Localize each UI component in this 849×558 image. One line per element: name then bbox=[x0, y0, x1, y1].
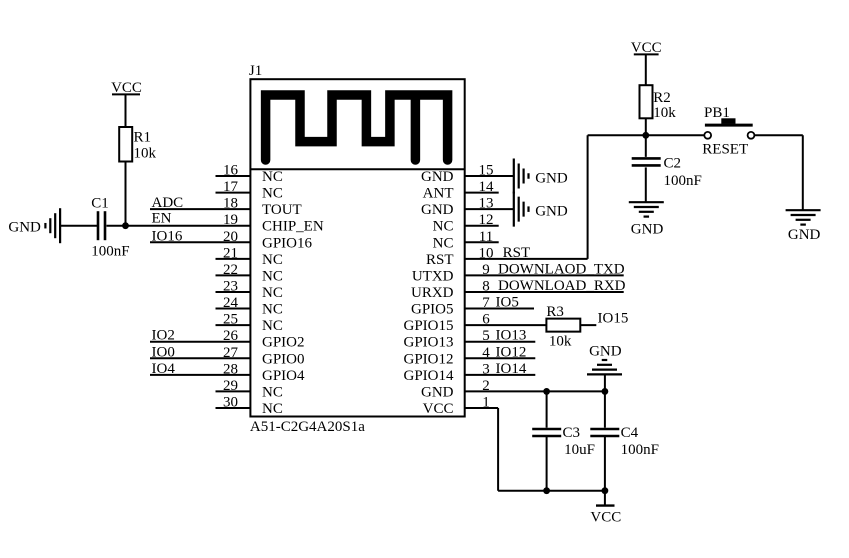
svg-text:GPIO15: GPIO15 bbox=[403, 318, 453, 334]
pin 9 (UTXD) right stub + number bbox=[465, 262, 624, 278]
capacitor C4 bbox=[590, 391, 619, 490]
svg-text:NC: NC bbox=[262, 285, 283, 301]
svg-text:15: 15 bbox=[479, 163, 494, 179]
svg-text:NC: NC bbox=[433, 235, 454, 251]
pin 24 (NC) left stub + number bbox=[216, 295, 251, 311]
svg-text:23: 23 bbox=[223, 278, 238, 294]
svg-text:NC: NC bbox=[262, 268, 283, 284]
svg-text:RESET: RESET bbox=[702, 142, 748, 158]
svg-text:30: 30 bbox=[223, 394, 238, 410]
pin 18 (TOUT) left stub + number bbox=[150, 196, 250, 212]
pin 5 (GPIO13) right stub + number bbox=[465, 328, 536, 344]
svg-text:21: 21 bbox=[223, 245, 238, 261]
ground symbol above pin 2 wire bbox=[587, 344, 622, 392]
svg-text:GND: GND bbox=[631, 222, 664, 238]
svg-text:10uF: 10uF bbox=[564, 442, 595, 458]
svg-text:GPIO12: GPIO12 bbox=[403, 351, 453, 367]
svg-text:GPIO4: GPIO4 bbox=[262, 368, 305, 384]
svg-text:NC: NC bbox=[262, 252, 283, 268]
svg-text:1: 1 bbox=[482, 394, 490, 410]
svg-text:13: 13 bbox=[479, 196, 494, 212]
svg-text:DOWNLAOD_TXD: DOWNLAOD_TXD bbox=[498, 261, 625, 277]
pin 20 (GPIO16) left stub + number bbox=[150, 229, 250, 245]
junction dot EN node bbox=[122, 222, 129, 229]
pin 14 (ANT) right stub + number bbox=[465, 179, 499, 195]
junction dot C4 bottom bbox=[602, 487, 609, 494]
svg-text:12: 12 bbox=[479, 212, 494, 228]
ground symbol right of PB1 bbox=[786, 210, 821, 243]
pin 21 (NC) left stub + number bbox=[216, 245, 251, 261]
svg-text:IO5: IO5 bbox=[496, 295, 519, 311]
svg-text:17: 17 bbox=[223, 179, 239, 195]
svg-text:GND: GND bbox=[8, 220, 41, 236]
svg-text:22: 22 bbox=[223, 262, 238, 278]
pin 8 (URXD) right stub + number bbox=[465, 278, 624, 294]
svg-text:GND: GND bbox=[589, 344, 622, 360]
svg-text:C1: C1 bbox=[91, 196, 109, 212]
capacitor C3 bbox=[532, 391, 561, 490]
svg-text:3: 3 bbox=[482, 361, 490, 377]
ground symbol at pin 13 bbox=[514, 192, 568, 227]
svg-text:4: 4 bbox=[482, 345, 490, 361]
svg-text:URXD: URXD bbox=[411, 285, 454, 301]
svg-text:IO0: IO0 bbox=[152, 344, 175, 360]
pin 17 (NC) left stub + number bbox=[216, 179, 251, 195]
power symbol VCC (top right) bbox=[631, 40, 662, 85]
svg-text:24: 24 bbox=[223, 295, 239, 311]
svg-text:ANT: ANT bbox=[423, 186, 454, 202]
svg-text:IO14: IO14 bbox=[496, 361, 527, 377]
svg-text:GND: GND bbox=[421, 384, 454, 400]
wire C2 to ground bbox=[645, 167, 647, 202]
svg-text:100nF: 100nF bbox=[664, 173, 702, 189]
svg-text:GPIO16: GPIO16 bbox=[262, 235, 313, 251]
svg-text:UTXD: UTXD bbox=[412, 268, 454, 284]
pin 27 (GPIO0) left stub + number bbox=[150, 345, 250, 361]
svg-text:20: 20 bbox=[223, 229, 238, 245]
svg-text:28: 28 bbox=[223, 361, 238, 377]
svg-text:TOUT: TOUT bbox=[262, 202, 302, 218]
svg-text:10k: 10k bbox=[134, 146, 157, 162]
pin 12 (NC) right stub + number bbox=[465, 212, 499, 228]
svg-text:IO15: IO15 bbox=[598, 311, 629, 327]
svg-text:R3: R3 bbox=[546, 304, 564, 320]
svg-text:VCC: VCC bbox=[590, 510, 621, 526]
pin 28 (GPIO4) left stub + number bbox=[150, 361, 250, 377]
svg-text:GND: GND bbox=[535, 170, 568, 186]
ground symbol (left, at C1) bbox=[8, 208, 60, 243]
svg-text:J1: J1 bbox=[249, 63, 262, 79]
pin 22 (NC) left stub + number bbox=[216, 262, 251, 278]
svg-text:NC: NC bbox=[433, 219, 454, 235]
svg-text:GND: GND bbox=[788, 227, 821, 243]
svg-text:CHIP_EN: CHIP_EN bbox=[262, 219, 324, 235]
svg-text:6: 6 bbox=[482, 312, 490, 328]
wire GND to C1 bbox=[61, 225, 98, 227]
svg-text:27: 27 bbox=[223, 345, 239, 361]
svg-text:5: 5 bbox=[482, 328, 490, 344]
svg-text:29: 29 bbox=[223, 378, 238, 394]
pin 30 (NC) left stub + number bbox=[216, 394, 251, 410]
pin 25 (NC) left stub + number bbox=[216, 312, 251, 328]
svg-text:C3: C3 bbox=[563, 425, 581, 441]
junction dot C3 bottom bbox=[543, 487, 550, 494]
pin 15 (GND) right stub + number bbox=[465, 163, 514, 179]
svg-text:R2: R2 bbox=[653, 90, 671, 106]
svg-text:C4: C4 bbox=[621, 425, 639, 441]
svg-text:10k: 10k bbox=[549, 334, 572, 350]
junction dot pin2/C4/gnd bbox=[602, 388, 609, 395]
svg-text:GPIO2: GPIO2 bbox=[262, 335, 305, 351]
wire C1 to pin 19 (EN net) bbox=[107, 225, 251, 227]
svg-text:A51-C2G4A20S1a: A51-C2G4A20S1a bbox=[250, 419, 365, 435]
svg-text:NC: NC bbox=[262, 384, 283, 400]
ground symbol below C2 bbox=[629, 202, 664, 237]
pin 16 (NC) left stub + number bbox=[216, 163, 251, 179]
antenna meander inside J1 bbox=[266, 95, 448, 160]
pin 19 (CHIP_EN) left stub + number bbox=[223, 212, 238, 228]
svg-text:GPIO13: GPIO13 bbox=[403, 335, 453, 351]
pin 4 (GPIO12) right stub + number bbox=[465, 345, 536, 361]
pin 7 (GPIO5) right stub + number bbox=[465, 295, 534, 311]
svg-text:ADC: ADC bbox=[152, 195, 184, 211]
resistor R3 bbox=[546, 319, 580, 332]
wire PB1 to right ground bbox=[754, 134, 802, 136]
wire pin1 down bbox=[497, 408, 499, 491]
svg-text:RST: RST bbox=[503, 245, 531, 261]
wire R2 to RST node bbox=[645, 118, 647, 157]
svg-text:R1: R1 bbox=[134, 130, 152, 146]
svg-text:DOWNLOAD_RXD: DOWNLOAD_RXD bbox=[498, 278, 626, 294]
svg-text:100nF: 100nF bbox=[91, 244, 129, 260]
resistor R1 bbox=[119, 127, 132, 162]
ground symbol at pin 15 bbox=[514, 159, 568, 194]
wire RST vertical to pin 10 bbox=[587, 135, 589, 259]
svg-text:NC: NC bbox=[262, 318, 283, 334]
power symbol VCC (bottom) bbox=[590, 491, 621, 526]
svg-text:8: 8 bbox=[482, 278, 490, 294]
pushbutton PB1 bbox=[704, 119, 754, 139]
pin 10 (RST) right stub + number bbox=[465, 245, 588, 261]
svg-text:PB1: PB1 bbox=[704, 105, 730, 121]
svg-text:IO2: IO2 bbox=[152, 328, 175, 344]
svg-text:16: 16 bbox=[223, 163, 239, 179]
power symbol VCC (top left) bbox=[111, 80, 142, 127]
pin 11 (NC) right stub + number bbox=[465, 229, 499, 245]
svg-text:VCC: VCC bbox=[423, 401, 454, 417]
junction dot pin2/C3 bbox=[543, 388, 550, 395]
pin 29 (NC) left stub + number bbox=[216, 378, 251, 394]
svg-text:9: 9 bbox=[482, 262, 490, 278]
pin 13 (GND) right stub + number bbox=[465, 196, 514, 212]
wire RST node horizontal bbox=[588, 134, 705, 136]
IC J1 body bbox=[250, 79, 464, 416]
svg-text:2: 2 bbox=[482, 378, 490, 394]
svg-text:NC: NC bbox=[262, 401, 283, 417]
svg-text:26: 26 bbox=[223, 328, 239, 344]
pin 23 (NC) left stub + number bbox=[216, 278, 251, 294]
capacitor C1 bbox=[98, 211, 105, 240]
pin 6 (GPIO15) right stub + number bbox=[465, 312, 597, 328]
svg-text:GPIO0: GPIO0 bbox=[262, 351, 305, 367]
resistor R2 bbox=[640, 85, 653, 118]
pin 3 (GPIO14) right stub + number bbox=[465, 361, 536, 377]
svg-text:NC: NC bbox=[262, 302, 283, 318]
capacitor C2 bbox=[632, 158, 661, 165]
svg-text:GPIO14: GPIO14 bbox=[403, 368, 454, 384]
svg-text:IO13: IO13 bbox=[496, 328, 527, 344]
svg-text:GND: GND bbox=[421, 169, 454, 185]
svg-text:IO4: IO4 bbox=[152, 361, 176, 377]
svg-text:14: 14 bbox=[479, 179, 495, 195]
pin 26 (GPIO2) left stub + number bbox=[150, 328, 250, 344]
svg-text:7: 7 bbox=[482, 295, 490, 311]
svg-text:IO12: IO12 bbox=[496, 344, 527, 360]
svg-text:NC: NC bbox=[262, 169, 283, 185]
svg-text:25: 25 bbox=[223, 312, 238, 328]
svg-text:GND: GND bbox=[421, 202, 454, 218]
svg-text:10: 10 bbox=[479, 245, 494, 261]
svg-text:EN: EN bbox=[152, 211, 172, 227]
svg-text:GPIO5: GPIO5 bbox=[411, 302, 454, 318]
wire bottom VCC rail bbox=[498, 490, 605, 492]
svg-text:10k: 10k bbox=[653, 105, 676, 121]
svg-text:11: 11 bbox=[479, 229, 493, 245]
svg-text:100nF: 100nF bbox=[621, 442, 659, 458]
pin 2 (GND) right stub + number bbox=[465, 378, 605, 394]
svg-text:GND: GND bbox=[535, 203, 568, 219]
wire R1 to EN node bbox=[125, 162, 127, 226]
junction dot RST node bbox=[642, 132, 649, 139]
svg-text:RST: RST bbox=[426, 252, 454, 268]
svg-text:C2: C2 bbox=[664, 156, 682, 172]
pin 1 (VCC) right stub + number bbox=[465, 394, 498, 410]
svg-text:18: 18 bbox=[223, 196, 238, 212]
svg-text:NC: NC bbox=[262, 186, 283, 202]
svg-text:IO16: IO16 bbox=[152, 228, 183, 244]
